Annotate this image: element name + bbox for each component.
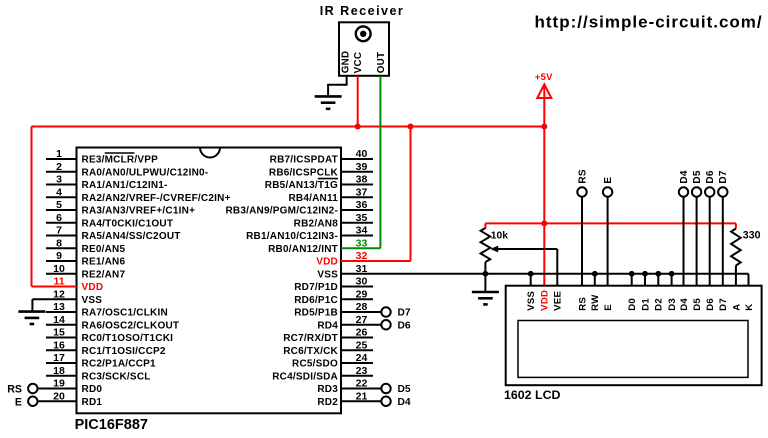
svg-text:D5: D5	[692, 170, 703, 183]
U1 pin 22 stub	[341, 388, 381, 390]
U1 pin 40 label	[270, 155, 338, 166]
junction lower +5V rail / +5V vertical	[541, 220, 547, 226]
U1 pin 3 number	[56, 174, 62, 186]
U1 pin 35 number	[356, 212, 368, 224]
svg-text:RB2/AN8: RB2/AN8	[294, 218, 339, 229]
svg-text:RA6/OSC2/CLKOUT: RA6/OSC2/CLKOUT	[82, 320, 180, 331]
U1 pin 26 number	[356, 327, 368, 339]
svg-text:K: K	[744, 304, 755, 311]
wire +5V top rail	[32, 126, 545, 128]
U1 pin 10 stub	[46, 273, 77, 275]
power +5V arrow symbol	[537, 84, 551, 98]
wire U2 OUT to U1 pin 33 (green)	[341, 76, 380, 248]
U1 pin 38 label	[265, 180, 338, 191]
svg-text:30: 30	[356, 276, 368, 288]
U1 pin 36 stub	[341, 209, 373, 211]
U1 pin 19 label RD0	[82, 384, 103, 395]
U1 pin 7 stub	[46, 235, 77, 237]
terminal D5 (pin 22)	[381, 384, 411, 395]
U1 pin 14 number	[53, 314, 65, 326]
U1 pin 26 stub	[341, 337, 373, 339]
U1 pin 28 label	[294, 308, 338, 319]
svg-text:OUT: OUT	[376, 52, 387, 74]
svg-text:23: 23	[356, 365, 368, 377]
svg-text:RA0/AN0/ULPWU/C12IN0-: RA0/AN0/ULPWU/C12IN0-	[82, 167, 209, 178]
U1 pin 6 label RA4	[82, 218, 174, 229]
U1 pin 16 stub	[46, 349, 77, 351]
note: website url	[535, 13, 763, 32]
U1 pin 26 label	[283, 333, 338, 344]
svg-text:22: 22	[356, 378, 368, 390]
svg-text:RB1/AN10/C12IN3-: RB1/AN10/C12IN3-	[246, 231, 338, 242]
U1 pin 20 label RD1	[82, 397, 103, 408]
wire ground bus from U1 pin 31 VSS to LCD K	[341, 274, 749, 286]
U1 pin 23 stub	[341, 375, 373, 377]
svg-text:37: 37	[356, 186, 368, 198]
U1 pin 13 stub	[46, 311, 77, 313]
U1 pin 14 label RA6	[82, 320, 180, 331]
svg-text:26: 26	[356, 327, 368, 339]
svg-text:+5V: +5V	[535, 72, 553, 83]
svg-text:13: 13	[53, 301, 65, 313]
resistor R1 330 body	[731, 229, 741, 266]
svg-text:RC2/P1A/CCP1: RC2/P1A/CCP1	[82, 359, 157, 370]
U1 pin 2 stub	[46, 171, 77, 173]
svg-text:D5: D5	[692, 298, 703, 311]
U1 pin 37 label	[288, 193, 338, 204]
U1 pin 6 number	[56, 212, 62, 224]
U1 pin 32 label	[316, 257, 338, 268]
junction +5V rail / +5V vertical	[541, 124, 547, 130]
U1 pin 25 number	[356, 339, 368, 351]
terminal D7 (pin 28)	[381, 307, 411, 318]
svg-text:14: 14	[53, 314, 65, 326]
terminal D4 above LCD	[679, 170, 690, 197]
ground symbol at pot	[472, 292, 499, 304]
ground symbol at IR receiver	[315, 96, 342, 108]
U1 pin 4 label RA2	[82, 193, 231, 204]
svg-text:RB4/AN11: RB4/AN11	[288, 193, 338, 204]
terminal RS (to LCD RS)	[7, 384, 37, 396]
junction ground bus / LCD D0	[629, 271, 635, 277]
svg-text:E: E	[15, 396, 22, 408]
U1 pin 25 stub	[341, 349, 373, 351]
U1 pin 9 label RE1	[82, 257, 126, 268]
terminal D7 above LCD	[718, 170, 729, 197]
LCD pin label D5	[692, 298, 703, 311]
svg-text:28: 28	[356, 301, 368, 313]
wire U2 VCC to +5V rail	[357, 76, 359, 127]
svg-text:9: 9	[56, 250, 62, 262]
svg-text:D6: D6	[705, 170, 716, 183]
svg-text:RE2/AN7: RE2/AN7	[82, 269, 126, 280]
svg-text:RW: RW	[590, 294, 601, 311]
svg-text:17: 17	[53, 352, 65, 364]
wire U2 GND pin to ground	[328, 76, 347, 96]
wire +5V rail to U1 pin 11 VDD	[32, 127, 77, 287]
IR receiver U2 pin label VCC	[353, 52, 364, 74]
U1 pin 15 label RC0	[82, 333, 174, 344]
LCD pin label D1	[640, 298, 651, 311]
svg-text:RD0: RD0	[82, 384, 103, 395]
svg-text:10: 10	[53, 263, 65, 275]
svg-text:RD5/P1B: RD5/P1B	[294, 308, 338, 319]
svg-text:RD7/P1D: RD7/P1D	[294, 282, 338, 293]
U1 pin 29 label	[294, 295, 338, 306]
LCD pin label D6	[705, 298, 716, 311]
U1 pin 13 label RA7	[82, 308, 168, 319]
svg-text:RS: RS	[577, 169, 588, 183]
U1 pin 16 number	[53, 339, 65, 351]
svg-text:RA2/AN2/VREF-/CVREF/C2IN+: RA2/AN2/VREF-/CVREF/C2IN+	[82, 193, 231, 204]
U1 pin 17 label RC2	[82, 359, 157, 370]
IC U1 PIC16F887 body	[77, 148, 342, 414]
LCD pin label D0	[627, 298, 638, 311]
U1 pin 25 label	[283, 346, 338, 357]
wire LCD D3 to ground bus	[671, 274, 673, 286]
wire U1 pin 32 VDD to +5V rail	[341, 127, 411, 262]
LCD pin label D2	[654, 298, 665, 311]
svg-text:RD1: RD1	[82, 397, 103, 408]
svg-text:RA7/OSC1/CLKIN: RA7/OSC1/CLKIN	[82, 308, 168, 319]
terminal D4 (pin 21)	[381, 397, 411, 408]
svg-text:PIC16F887: PIC16F887	[75, 417, 148, 433]
U1 pin 24 stub	[341, 362, 373, 364]
U1 pin 21 number	[356, 390, 368, 402]
wire E terminal to U1 pin 20	[38, 400, 77, 402]
svg-text:E: E	[603, 304, 614, 311]
U1 pin 39 stub	[341, 171, 373, 173]
U1 pin 31 number	[356, 263, 368, 275]
U1 pin 8 stub	[46, 247, 77, 249]
wire LCD D1 to ground bus	[644, 274, 646, 286]
wire R1 bottom to LCD A	[735, 266, 737, 286]
svg-text:E: E	[603, 177, 614, 184]
potentiometer RV1 10k body	[481, 228, 491, 262]
svg-text:D2: D2	[654, 298, 665, 311]
junction pot / ground bus	[483, 271, 489, 277]
U1 pin 5 number	[56, 199, 62, 211]
U1 pin 15 number	[53, 327, 65, 339]
svg-text:VDD: VDD	[82, 282, 104, 293]
svg-text:330: 330	[743, 229, 761, 241]
svg-text:VDD: VDD	[316, 257, 338, 268]
svg-text:7: 7	[56, 225, 62, 237]
U1 pin 33 label	[268, 244, 338, 255]
U1 pin 34 stub	[341, 235, 373, 237]
svg-text:D4: D4	[679, 298, 690, 311]
svg-text:VEE: VEE	[553, 291, 564, 311]
U1 pin 2 label RA0	[82, 167, 209, 178]
junction ground bus / LCD RW	[592, 271, 598, 277]
U1 pin 6 stub	[46, 222, 77, 224]
svg-text:D0: D0	[627, 298, 638, 311]
U1 pin 24 number	[356, 352, 368, 364]
U1 pin 33 number	[356, 237, 368, 249]
svg-text:D1: D1	[640, 298, 651, 311]
IR receiver U2 title	[320, 4, 405, 18]
svg-text:VDD: VDD	[540, 290, 551, 311]
svg-text:RS: RS	[577, 297, 588, 311]
U1 pin 4 number	[56, 186, 62, 198]
wire terminal RS to LCD RS	[581, 197, 583, 286]
svg-text:RE0/AN5: RE0/AN5	[82, 244, 126, 255]
svg-text:35: 35	[356, 212, 368, 224]
LCD pin label D4	[679, 298, 690, 311]
LCD pin label VDD	[540, 290, 551, 311]
wire terminal D6 to LCD D6	[709, 197, 711, 286]
terminal E (to LCD E)	[15, 396, 38, 408]
U1 pin 9 stub	[46, 260, 77, 262]
U1 pin 7 label RA5	[82, 231, 181, 242]
svg-text:36: 36	[356, 199, 368, 211]
U1 pin 37 number	[356, 186, 368, 198]
U1 pin 39 number	[356, 161, 368, 173]
svg-text:RD4: RD4	[317, 320, 338, 331]
U1 pin 3 label RA1	[82, 180, 168, 191]
svg-text:RB6/ICSPCLK: RB6/ICSPCLK	[269, 167, 339, 178]
svg-text:VSS: VSS	[317, 269, 338, 280]
wire terminal D7 to LCD D7	[722, 197, 724, 286]
U1 pin 18 number	[53, 365, 65, 377]
U1 pin 14 stub	[46, 324, 77, 326]
svg-text:10k: 10k	[491, 230, 508, 241]
LCD pin label D7	[718, 298, 729, 311]
wire pot bottom to ground bus	[484, 262, 486, 292]
svg-text:3: 3	[56, 174, 62, 186]
svg-text:RD6/P1C: RD6/P1C	[294, 295, 338, 306]
U1 pin 30 stub	[341, 286, 373, 288]
wire RS terminal to U1 pin 19	[38, 388, 77, 390]
U1 pin 5 label RA3	[82, 206, 196, 217]
IR receiver U2 lens symbol	[356, 26, 371, 41]
wire terminal D4 to LCD D4	[683, 197, 685, 286]
svg-text:34: 34	[356, 225, 368, 237]
U1 pin 16 label RC1	[82, 346, 166, 357]
svg-text:RC6/TX/CK: RC6/TX/CK	[283, 346, 338, 357]
U1 pin 40 number	[356, 148, 368, 160]
potentiometer RV1 value 10k	[491, 230, 508, 241]
U1 pin 2 number	[56, 161, 62, 173]
svg-text:IR Receiver: IR Receiver	[320, 4, 405, 18]
wire LCD RW to ground bus	[594, 274, 596, 286]
junction ground bus / LCD VSS	[528, 271, 534, 277]
power +5V label	[535, 72, 553, 83]
LCD pin label D3	[667, 298, 678, 311]
svg-text:D7: D7	[718, 298, 729, 311]
U1 pin 15 stub	[46, 337, 77, 339]
U1 pin 17 number	[53, 352, 65, 364]
U1 pin 40 stub	[341, 158, 373, 160]
svg-text:RB7/ICSPDAT: RB7/ICSPDAT	[270, 155, 338, 166]
U1 pin 9 number	[56, 250, 62, 262]
svg-text:38: 38	[356, 174, 368, 186]
wire LCD D2 to ground bus	[657, 274, 659, 286]
U1 pin 5 stub	[46, 209, 77, 211]
U1 pin 20 number	[53, 390, 65, 402]
svg-text:D4: D4	[398, 397, 411, 408]
svg-text:D6: D6	[705, 298, 716, 311]
svg-text:1602 LCD: 1602 LCD	[504, 388, 561, 402]
U1 pin 29 stub	[341, 298, 373, 300]
svg-text:D7: D7	[398, 308, 411, 319]
U1 pin 36 number	[356, 199, 368, 211]
IC U1 name label PIC16F887	[75, 417, 148, 433]
svg-text:1: 1	[56, 148, 62, 160]
U1 pin 27 number	[356, 314, 368, 326]
svg-text:http://simple-circuit.com/: http://simple-circuit.com/	[535, 13, 763, 32]
svg-text:RB3/AN9/PGM/C12IN2-: RB3/AN9/PGM/C12IN2-	[225, 206, 338, 217]
svg-text:RE3/MCLR/VPP: RE3/MCLR/VPP	[82, 155, 159, 166]
LCD pin label VEE	[553, 291, 564, 311]
IR receiver U2 body	[339, 22, 389, 76]
U1 pin 38 number	[356, 174, 368, 186]
junction ground bus / LCD D3	[669, 271, 675, 277]
U1 pin 17 stub	[46, 362, 77, 364]
U1 pin 27 label	[317, 320, 338, 331]
svg-text:A: A	[731, 304, 742, 311]
svg-text:16: 16	[53, 339, 65, 351]
IR receiver U2 pin label GND	[341, 51, 352, 74]
svg-text:D4: D4	[679, 170, 690, 183]
svg-text:RC3/SCK/SCL: RC3/SCK/SCL	[82, 371, 151, 382]
svg-text:RS: RS	[7, 384, 22, 396]
svg-text:4: 4	[56, 186, 62, 198]
overline on MCLR (pin 1 label)	[105, 152, 135, 154]
U1 pin 10 number	[53, 263, 65, 275]
svg-text:RC5/SDO: RC5/SDO	[292, 359, 338, 370]
svg-text:25: 25	[356, 339, 368, 351]
wire terminal D5 to LCD D5	[696, 197, 698, 286]
U1 pin 7 number	[56, 225, 62, 237]
svg-text:VSS: VSS	[82, 295, 103, 306]
U1 pin 35 stub	[341, 222, 373, 224]
svg-text:RB5/AN13/T1G: RB5/AN13/T1G	[265, 180, 338, 191]
svg-text:RA1/AN1/C12IN1-: RA1/AN1/C12IN1-	[82, 180, 168, 191]
wire +5V lower rail (pot / 330)	[485, 223, 736, 228]
LCD pin label RW	[590, 294, 601, 311]
svg-text:RB0/AN12/INT: RB0/AN12/INT	[268, 244, 338, 255]
svg-text:18: 18	[53, 365, 65, 377]
U1 pin 27 stub	[341, 324, 381, 326]
U1 pin 23 number	[356, 365, 368, 377]
wire +5V vertical to LCD VDD	[543, 86, 545, 286]
wire LCD VSS to ground bus	[530, 274, 532, 286]
U1 pin 37 stub	[341, 196, 373, 198]
U1 pin 13 number	[53, 301, 65, 313]
LCD pin label VSS	[526, 291, 537, 311]
wire LCD D0 to ground bus	[631, 274, 633, 286]
svg-text:2: 2	[56, 161, 62, 173]
terminal RS above LCD	[577, 169, 588, 197]
terminal D6 above LCD	[705, 170, 716, 197]
svg-text:6: 6	[56, 212, 62, 224]
svg-text:VCC: VCC	[353, 52, 364, 74]
LCD pin label RS	[577, 297, 588, 311]
svg-text:8: 8	[56, 237, 62, 249]
svg-text:15: 15	[53, 327, 65, 339]
U1 pin 30 number	[356, 276, 368, 288]
U1 pin 32 number	[356, 250, 368, 262]
resistor R1 value 330	[743, 229, 761, 241]
svg-text:5: 5	[56, 199, 62, 211]
U1 pin 36 label	[225, 206, 338, 217]
svg-text:RC1/T1OSI/CCP2: RC1/T1OSI/CCP2	[82, 346, 166, 357]
terminal E above LCD	[603, 177, 614, 197]
U1 pin 12 label VSS	[82, 295, 103, 306]
U1 pin 28 number	[356, 301, 368, 313]
svg-text:40: 40	[356, 148, 368, 160]
U1 pin 31 label	[317, 269, 338, 280]
U1 pin 28 stub	[341, 311, 381, 313]
U1 pin 18 stub	[46, 375, 77, 377]
svg-text:27: 27	[356, 314, 368, 326]
U1 pin 19 number	[53, 378, 65, 390]
U1 pin 1 label RE3	[82, 155, 159, 166]
U1 pin 21 label	[317, 397, 338, 408]
ground symbol at U1 VSS	[18, 312, 45, 324]
LCD pin label E	[603, 304, 614, 311]
U1 pin 18 label RC3	[82, 371, 151, 382]
U1 pin 8 label RE0	[82, 244, 126, 255]
U1 pin 29 number	[356, 288, 368, 300]
junction ground bus / LCD D2	[655, 271, 661, 277]
U1 pin 21 stub	[341, 400, 381, 402]
overline on T1G (pin 38 label)	[318, 178, 338, 180]
junction +5V rail / pin 32 wire	[408, 124, 414, 130]
U1 pin 38 stub	[341, 184, 373, 186]
LCD module LCD1 body	[506, 286, 762, 386]
wire terminal E to LCD E	[607, 197, 609, 286]
LCD pin label K	[744, 304, 755, 311]
U1 pin 34 number	[356, 225, 368, 237]
U1 pin 11 label VDD	[82, 282, 104, 293]
U1 pin 30 label	[294, 282, 338, 293]
U1 pin 24 label	[292, 359, 338, 370]
U1 pin 34 label	[246, 231, 338, 242]
U1 pin 23 label	[272, 371, 338, 382]
U1 pin 3 stub	[46, 184, 77, 186]
svg-text:D6: D6	[398, 320, 411, 331]
svg-text:RC7/RX/DT: RC7/RX/DT	[283, 333, 338, 344]
U1 pin 35 label	[294, 218, 339, 229]
svg-text:RE1/AN6: RE1/AN6	[82, 257, 126, 268]
terminal D6 (pin 27)	[381, 320, 411, 331]
svg-text:RA3/AN3/VREF+/C1IN+: RA3/AN3/VREF+/C1IN+	[82, 206, 196, 217]
junction +5V rail / U2 VCC	[355, 124, 361, 130]
terminal D5 above LCD	[692, 170, 703, 197]
svg-text:D3: D3	[667, 298, 678, 311]
svg-text:RA4/T0CKI/C1OUT: RA4/T0CKI/C1OUT	[82, 218, 174, 229]
U1 pin 8 number	[56, 237, 62, 249]
svg-text:D7: D7	[718, 170, 729, 183]
svg-text:39: 39	[356, 161, 368, 173]
U1 pin 11 number	[53, 276, 64, 288]
svg-text:RD2: RD2	[317, 397, 338, 408]
svg-text:RC4/SDI/SDA: RC4/SDI/SDA	[272, 371, 338, 382]
LCD module name 1602 LCD	[504, 388, 561, 402]
U1 pin 10 label RE2	[82, 269, 126, 280]
svg-text:29: 29	[356, 288, 368, 300]
U1 pin 12 number	[53, 288, 65, 300]
U1 pin 22 label	[317, 384, 338, 395]
svg-text:RA5/AN4/SS/C2OUT: RA5/AN4/SS/C2OUT	[82, 231, 181, 242]
wire U1 pin 12 VSS to ground	[32, 299, 76, 311]
svg-text:RC0/T1OSO/T1CKI: RC0/T1OSO/T1CKI	[82, 333, 174, 344]
svg-text:D5: D5	[398, 384, 411, 395]
svg-text:GND: GND	[341, 51, 352, 74]
U1 pin 1 number	[56, 148, 62, 160]
